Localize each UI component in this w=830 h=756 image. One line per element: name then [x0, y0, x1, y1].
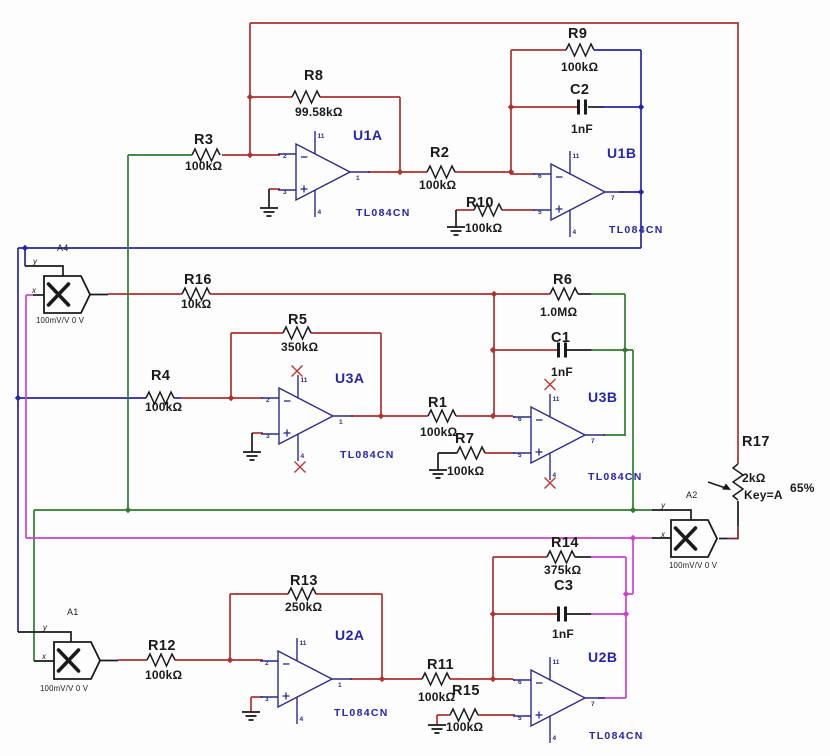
- svg-text:100kΩ: 100kΩ: [561, 60, 598, 74]
- svg-text:R16: R16: [184, 272, 212, 288]
- svg-text:3: 3: [283, 189, 287, 196]
- svg-text:6: 6: [538, 173, 542, 180]
- svg-text:11: 11: [573, 153, 580, 160]
- svg-text:11: 11: [300, 640, 307, 647]
- svg-text:4: 4: [300, 716, 304, 723]
- svg-text:R13: R13: [290, 573, 318, 589]
- svg-text:U3A: U3A: [335, 370, 365, 386]
- svg-text:y: y: [660, 501, 666, 510]
- svg-text:x: x: [660, 530, 666, 539]
- svg-text:100kΩ: 100kΩ: [145, 668, 182, 682]
- svg-text:100kΩ: 100kΩ: [420, 425, 457, 439]
- svg-text:1: 1: [356, 175, 360, 182]
- svg-text:R8: R8: [304, 68, 323, 84]
- svg-text:2: 2: [266, 397, 270, 404]
- svg-text:x: x: [41, 652, 47, 661]
- svg-text:2: 2: [283, 153, 287, 160]
- svg-text:1nF: 1nF: [552, 627, 574, 641]
- svg-text:R4: R4: [151, 368, 170, 384]
- svg-text:4: 4: [301, 453, 305, 460]
- svg-text:x: x: [31, 286, 37, 295]
- svg-text:11: 11: [301, 377, 308, 384]
- svg-text:375kΩ: 375kΩ: [544, 563, 581, 577]
- svg-text:TL084CN: TL084CN: [334, 707, 389, 719]
- svg-text:100kΩ: 100kΩ: [145, 400, 182, 414]
- svg-text:6: 6: [518, 416, 522, 423]
- svg-text:7: 7: [611, 195, 615, 202]
- svg-text:R12: R12: [148, 638, 176, 654]
- svg-text:TL084CN: TL084CN: [588, 471, 643, 483]
- svg-text:C2: C2: [570, 82, 589, 98]
- svg-text:5: 5: [538, 209, 542, 216]
- svg-text:4: 4: [573, 229, 577, 236]
- svg-text:U2A: U2A: [335, 627, 365, 643]
- svg-text:y: y: [42, 623, 48, 632]
- svg-text:7: 7: [591, 438, 595, 445]
- svg-text:R9: R9: [568, 26, 587, 42]
- svg-text:1.0MΩ: 1.0MΩ: [540, 305, 577, 319]
- svg-text:Key=A: Key=A: [744, 488, 783, 502]
- svg-text:100mV/V 0 V: 100mV/V 0 V: [669, 561, 718, 570]
- svg-text:R10: R10: [466, 195, 494, 211]
- svg-text:100kΩ: 100kΩ: [446, 720, 483, 734]
- svg-text:R11: R11: [427, 657, 454, 673]
- svg-text:250kΩ: 250kΩ: [285, 600, 322, 614]
- svg-text:100kΩ: 100kΩ: [185, 159, 222, 173]
- svg-text:1: 1: [338, 682, 342, 689]
- svg-text:C1: C1: [551, 330, 570, 346]
- svg-text:A2: A2: [686, 490, 697, 500]
- svg-text:R3: R3: [194, 132, 213, 148]
- svg-text:y: y: [32, 257, 38, 266]
- svg-text:5: 5: [518, 715, 522, 722]
- svg-text:100kΩ: 100kΩ: [465, 221, 502, 235]
- svg-text:100mV/V 0 V: 100mV/V 0 V: [40, 684, 89, 693]
- svg-text:1nF: 1nF: [571, 122, 593, 136]
- svg-text:99.58kΩ: 99.58kΩ: [295, 105, 343, 119]
- svg-text:TL084CN: TL084CN: [609, 224, 664, 236]
- svg-text:R17: R17: [742, 434, 770, 450]
- svg-text:4: 4: [318, 209, 322, 216]
- svg-text:3: 3: [266, 433, 270, 440]
- svg-text:TL084CN: TL084CN: [589, 730, 644, 742]
- svg-text:A4: A4: [57, 243, 68, 253]
- svg-text:3: 3: [265, 696, 269, 703]
- svg-text:U1B: U1B: [607, 145, 637, 161]
- svg-text:100kΩ: 100kΩ: [419, 178, 456, 192]
- svg-text:5: 5: [518, 452, 522, 459]
- svg-text:R1: R1: [428, 395, 447, 411]
- svg-text:6: 6: [518, 679, 522, 686]
- svg-text:R14: R14: [551, 535, 579, 551]
- svg-text:A1: A1: [67, 607, 78, 617]
- svg-text:U1A: U1A: [353, 127, 383, 143]
- svg-text:TL084CN: TL084CN: [356, 207, 411, 219]
- svg-text:1: 1: [339, 419, 343, 426]
- svg-text:100kΩ: 100kΩ: [447, 464, 484, 478]
- svg-text:R15: R15: [452, 683, 480, 699]
- svg-text:7: 7: [591, 701, 595, 708]
- svg-text:2: 2: [265, 660, 269, 667]
- svg-text:TL084CN: TL084CN: [340, 449, 395, 461]
- svg-text:R7: R7: [455, 431, 474, 447]
- svg-text:11: 11: [553, 659, 560, 666]
- svg-text:R5: R5: [288, 312, 307, 328]
- svg-text:1nF: 1nF: [551, 365, 573, 379]
- svg-text:C3: C3: [554, 578, 573, 594]
- svg-text:R6: R6: [553, 272, 572, 288]
- svg-text:10kΩ: 10kΩ: [181, 297, 212, 311]
- svg-text:100mV/V 0 V: 100mV/V 0 V: [36, 316, 85, 325]
- svg-text:11: 11: [553, 396, 560, 403]
- svg-text:2kΩ: 2kΩ: [742, 471, 766, 485]
- svg-text:U3B: U3B: [588, 389, 618, 405]
- svg-text:4: 4: [553, 735, 557, 742]
- svg-text:11: 11: [318, 133, 325, 140]
- svg-text:100kΩ: 100kΩ: [418, 690, 455, 704]
- svg-text:U2B: U2B: [588, 649, 618, 665]
- svg-text:R2: R2: [430, 145, 449, 161]
- svg-text:65%: 65%: [790, 481, 815, 495]
- svg-text:350kΩ: 350kΩ: [281, 340, 318, 354]
